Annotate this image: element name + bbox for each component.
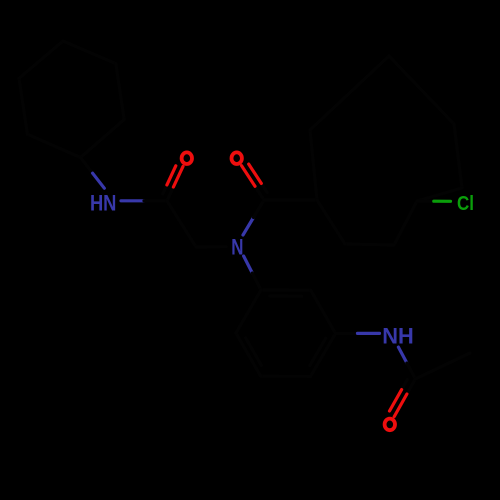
oxygen O1 label xyxy=(182,152,192,164)
acetamidophenyl benzene ring xyxy=(236,290,336,376)
wire C1-CH2 xyxy=(167,201,196,247)
wire cyclohexyl-N1 xyxy=(81,158,105,189)
chlorine Cl label xyxy=(457,193,474,215)
wire aryl-N3 xyxy=(336,332,380,335)
cyclohexyl ring xyxy=(19,41,124,158)
svg-text:N: N xyxy=(231,235,243,260)
svg-text:HN: HN xyxy=(90,190,117,215)
oxygen O2 label xyxy=(232,152,242,164)
wire C-Cl xyxy=(417,199,451,203)
carbonyl C2=O2 double bond xyxy=(242,164,268,200)
wire CH2-N2 xyxy=(196,245,226,249)
wire C2-ipso xyxy=(264,198,317,201)
svg-text:NH: NH xyxy=(382,324,414,349)
carbonyl C1'=O3 double bond xyxy=(390,379,416,417)
wire N2-C2 xyxy=(243,200,264,235)
chloro carbocycle ring xyxy=(310,56,462,245)
amide N3 label NH xyxy=(382,324,414,349)
carbonyl C1=O1 double bond xyxy=(163,166,183,201)
amide N2 label xyxy=(231,235,243,260)
wire C1'-CH3 methyl xyxy=(415,353,470,379)
wire N1-C1 xyxy=(121,199,167,202)
wire N3-C1' xyxy=(398,347,415,379)
oxygen O3 label xyxy=(385,419,395,431)
amide N1 label HN xyxy=(90,190,117,215)
wire N2-aryl xyxy=(244,256,261,290)
svg-text:Cl: Cl xyxy=(457,193,474,215)
